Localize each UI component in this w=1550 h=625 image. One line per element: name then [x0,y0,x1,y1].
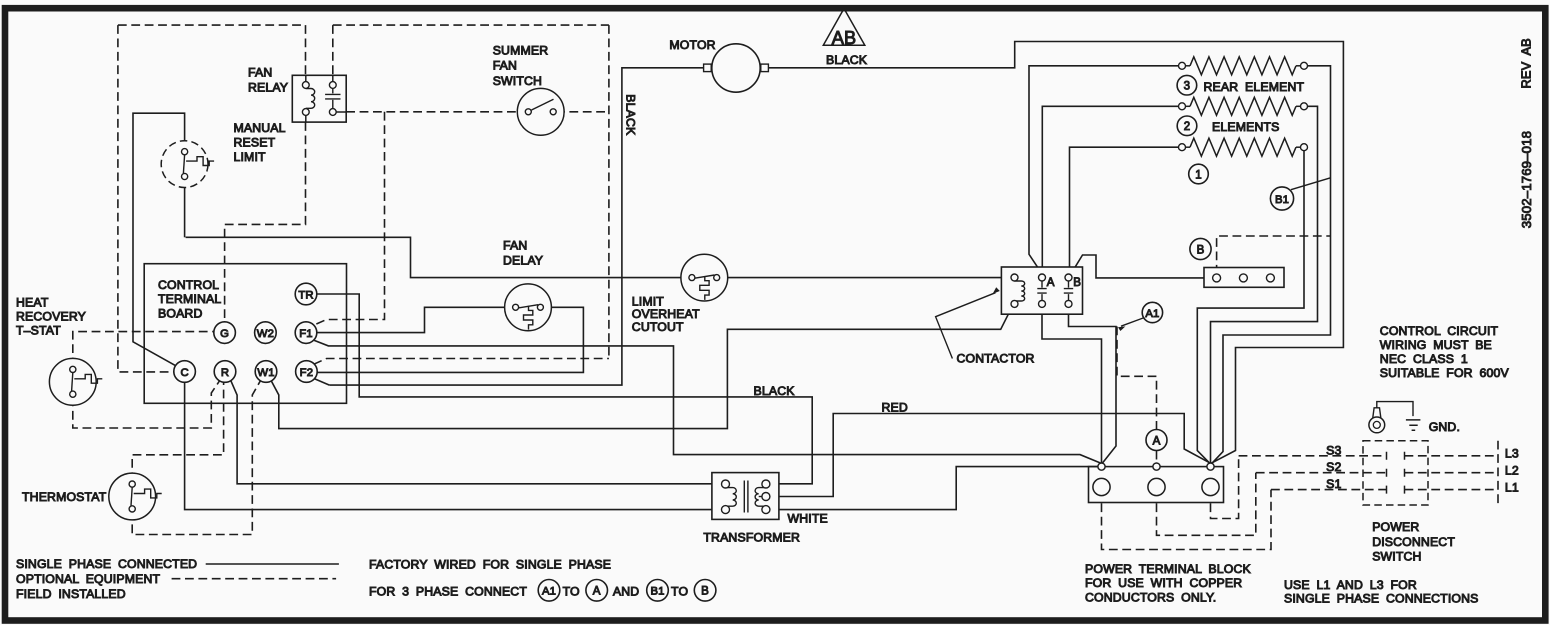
svg-text:B: B [701,586,709,598]
dashed wire: field box left edge to C [118,25,173,372]
svg-text:SWITCH: SWITCH [493,74,542,88]
node B1 with leader [1291,178,1331,190]
dashed wire: terminal block left lug to S1 [1102,490,1272,550]
terminal G [214,322,236,344]
svg-text:SINGLE PHASE CONNECTED: SINGLE PHASE CONNECTED [16,557,197,571]
svg-text:3502–1769–018: 3502–1769–018 [1519,131,1534,228]
wire: element 1 right lead to terminal block [1197,151,1304,464]
fan relay FR [292,75,346,122]
svg-text:SINGLE PHASE CONNECTIONS: SINGLE PHASE CONNECTIONS [1284,592,1479,606]
svg-text:B1: B1 [1275,194,1289,206]
svg-text:W1: W1 [257,367,274,379]
wire: manual reset limit upper lead from C [133,113,185,365]
svg-text:CONDUCTORS ONLY.: CONDUCTORS ONLY. [1085,591,1216,605]
wire: manual reset limit lower lead [184,182,186,238]
svg-text:AB: AB [832,28,857,48]
svg-text:FAN: FAN [248,65,272,79]
wire: fan delay switch to F2 [317,307,583,372]
svg-text:BLACK: BLACK [754,384,796,398]
svg-text:SWITCH: SWITCH [1372,550,1421,564]
svg-text:REV AB: REV AB [1519,38,1534,88]
svg-text:G: G [220,328,229,340]
wire: F1 to fan delay switch [317,307,513,332]
svg-text:WIRING MUST BE: WIRING MUST BE [1380,338,1492,352]
wire: transformer secondary mid RED to terminal block [770,414,1209,497]
dashed wire: branch from summer fan line down to F1 [314,112,385,325]
svg-text:BLACK: BLACK [624,94,638,136]
disconnect contacts S1 [1387,486,1405,494]
wire: F1 long lead to terminal block left lug [314,340,1101,463]
svg-text:GND.: GND. [1429,420,1460,434]
dashed wire: fan relay cap top to summer fan box [332,25,334,75]
node circle 1 [1189,164,1209,184]
terminal W2 [255,322,277,344]
terminal TR [295,283,317,305]
wire: element 2 left lead to contactor A [1042,106,1178,273]
motor M [704,44,769,92]
svg-text:B1: B1 [650,586,664,598]
svg-text:POWER TERMINAL BLOCK: POWER TERMINAL BLOCK [1085,562,1252,576]
svg-text:TO: TO [671,584,688,598]
node circle 3 [1177,75,1197,95]
transformer T1 [712,473,779,520]
svg-text:C: C [180,367,188,379]
dashed wire: legend dashed sample [172,578,337,580]
node circle 2 [1177,116,1197,136]
power disconnect switch box [1363,441,1428,505]
disconnect contacts S3 [1387,452,1405,460]
contactor K1 [1001,267,1082,314]
svg-text:T–STAT: T–STAT [16,323,61,337]
dashed wire: fan relay to summer fan switch [346,111,525,113]
svg-text:TR: TR [298,289,313,301]
dashed wire: thermostat top to R [132,383,223,482]
dashed wire: terminal block middle lug to S2 [1157,473,1256,536]
svg-text:THERMOSTAT: THERMOSTAT [22,490,107,504]
svg-text:FIELD INSTALLED: FIELD INSTALLED [16,587,126,601]
dashed wire: fan relay coil bottom to G [225,122,306,322]
svg-text:A: A [1153,435,1161,447]
dashed wire: terminal block right lug to S3 [1211,456,1239,519]
svg-text:POWER: POWER [1372,520,1419,534]
dashed wire: B terminal strip to B1 wire [1217,236,1331,274]
power terminal block [1089,463,1224,503]
wire: TR to transformer secondary top (BLACK) [317,294,812,484]
svg-text:S3: S3 [1326,443,1341,457]
svg-text:W2: W2 [257,328,274,340]
heating element 1 [1179,138,1308,156]
svg-text:RED: RED [882,400,908,414]
svg-text:WHITE: WHITE [788,511,828,525]
svg-text:S2: S2 [1326,460,1341,474]
dashed wire: summer fan box right edge down to F2 dashed [608,25,610,358]
node A [1146,430,1167,451]
dashed wire: thermostat bottom to W1 [132,381,260,535]
svg-text:TERMINAL: TERMINAL [158,292,221,306]
manual reset limit switch [161,141,214,188]
svg-text:REAR ELEMENT: REAR ELEMENT [1204,80,1305,94]
node B [1190,238,1211,259]
svg-text:TRANSFORMER: TRANSFORMER [703,530,800,544]
wire: transformer secondary bottom WHITE to terminal block [770,467,1098,510]
heating element 2 [1179,97,1308,115]
wire: R to transformer primary top [231,381,722,484]
svg-text:BOARD: BOARD [158,306,202,320]
svg-text:A: A [593,586,601,598]
heat recovery t-stat switch [49,358,102,405]
svg-text:FOR USE WITH COPPER: FOR USE WITH COPPER [1085,576,1242,590]
dashed wire: S2 line to disconnect switch [1256,472,1387,474]
terminal C [174,361,196,383]
svg-text:F2: F2 [300,367,313,379]
thermostat switch [109,473,162,520]
dashed wire: L feeder bus [1497,441,1499,505]
dashed wire: S3 line disconnect to L3 [1405,455,1499,457]
svg-text:FAN: FAN [503,239,527,253]
wire: contactor B bottom to terminal block left lug [1069,308,1117,463]
wire: element 1 left lead to contactor B [1070,147,1179,274]
svg-text:TO: TO [563,584,580,598]
svg-text:MOTOR: MOTOR [669,38,715,52]
dashed wire: S3 line to disconnect switch [1239,455,1387,457]
contactor leader [936,293,996,359]
svg-text:R: R [221,367,229,379]
wire: contactor A bottom to terminal block left lug [1042,308,1102,463]
wire: legend solid sample [206,563,339,565]
svg-text:S1: S1 [1326,477,1341,491]
svg-text:HEAT: HEAT [16,295,49,309]
dashed wire: summer fan switch to right dashed bus [556,111,609,113]
svg-text:LIMIT: LIMIT [234,150,267,164]
svg-text:FOR 3 PHASE CONNECT: FOR 3 PHASE CONNECT [369,584,527,598]
svg-text:A1: A1 [542,586,556,598]
node A legend [586,580,608,602]
ground lug [1369,402,1413,433]
wire: contactor B top to B terminal strip [1071,255,1213,278]
dashed wire: summer fan box top edge [333,24,609,26]
svg-text:L1: L1 [1505,480,1519,494]
node A1 legend [538,580,560,602]
dashed wire: S2 line disconnect to L2 [1405,472,1499,474]
fan delay switch [505,284,552,331]
svg-text:OPTIONAL EQUIPMENT: OPTIONAL EQUIPMENT [16,572,160,586]
terminal W1 [255,361,277,383]
dashed wire: heat recovery t-stat top to G [73,332,214,367]
svg-text:RESET: RESET [234,135,276,149]
svg-text:L3: L3 [1505,447,1519,461]
terminal F2 [296,361,318,383]
svg-text:ELEMENTS: ELEMENTS [1212,120,1279,134]
svg-text:F1: F1 [299,328,312,340]
svg-text:A1: A1 [1145,308,1159,320]
svg-text:B: B [1197,244,1205,256]
wire: element 2 right lead to terminal block [1211,106,1318,463]
dashed wire: A circle to middle lug [1156,451,1158,463]
terminal R [214,361,236,383]
svg-text:CONTROL CIRCUIT: CONTROL CIRCUIT [1380,324,1499,338]
svg-text:BLACK: BLACK [826,53,868,67]
svg-text:AND: AND [613,584,639,598]
svg-text:CONTROL: CONTROL [158,278,219,292]
svg-text:2: 2 [1184,121,1191,133]
disconnect contacts S2 [1387,469,1405,477]
limit overheat cutout switch [681,254,728,301]
svg-text:1: 1 [1195,169,1202,181]
wire: contactor coil bottom to W1 [271,306,1012,428]
svg-text:A: A [1047,277,1055,289]
dashed wire: A1 lead to A circle and terminal [1117,327,1157,430]
svg-text:CONTACTOR: CONTACTOR [957,351,1035,365]
ground symbol [1406,420,1421,430]
dashed wire: F2 to summer fan dashed bus [314,359,609,365]
B terminal strip [1204,268,1284,288]
dashed wire: S1 line to disconnect switch [1271,489,1387,491]
svg-text:SUITABLE FOR 600V: SUITABLE FOR 600V [1380,366,1510,380]
wire: element 3 left lead to contactor A [1029,66,1179,274]
svg-text:L2: L2 [1505,464,1519,478]
svg-text:RECOVERY: RECOVERY [16,309,86,323]
wire: limit cutout to contactor coil [720,277,1011,279]
svg-text:FACTORY WIRED FOR SINGLE PHASE: FACTORY WIRED FOR SINGLE PHASE [369,558,611,572]
wire: motor right to top bus and power terminal block [768,42,1343,464]
dashed wire: S1 line disconnect to L1 [1405,489,1499,491]
svg-text:MANUAL: MANUAL [234,121,286,135]
svg-text:CUTOUT: CUTOUT [632,320,684,334]
svg-text:DISCONNECT: DISCONNECT [1372,535,1455,549]
node B legend [694,580,716,602]
svg-text:3: 3 [1184,81,1191,93]
svg-text:SUMMER: SUMMER [493,44,549,58]
terminal F1 [295,322,317,344]
svg-text:NEC CLASS 1: NEC CLASS 1 [1380,352,1468,366]
node B1 legend [647,580,669,602]
dashed wire: field box top to fan relay coil [305,25,307,75]
wire: C to transformer primary bottom [185,383,722,510]
svg-text:USE L1 AND L3 FOR: USE L1 AND L3 FOR [1284,578,1417,592]
AB triangle flag [823,9,865,48]
dashed wire: field box top edge [118,24,306,26]
dashed wire: heat recovery t-stat bottom to R [73,381,220,428]
summer fan switch [517,88,564,135]
control terminal board [144,264,346,404]
wire: element 3 right lead down right side [1212,66,1331,464]
wire: F2 stub to black wire [314,378,330,385]
svg-text:B: B [1073,277,1081,289]
svg-text:DELAY: DELAY [503,253,543,267]
wire: motor left / black vertical to F2 line [329,68,703,385]
node A1 with leader arrow [1121,318,1144,327]
heating element 3 (rear) [1179,57,1308,75]
wire: manual reset limit to limit overheat cutout [186,237,690,277]
svg-text:FAN: FAN [493,59,517,73]
svg-text:RELAY: RELAY [248,81,288,95]
